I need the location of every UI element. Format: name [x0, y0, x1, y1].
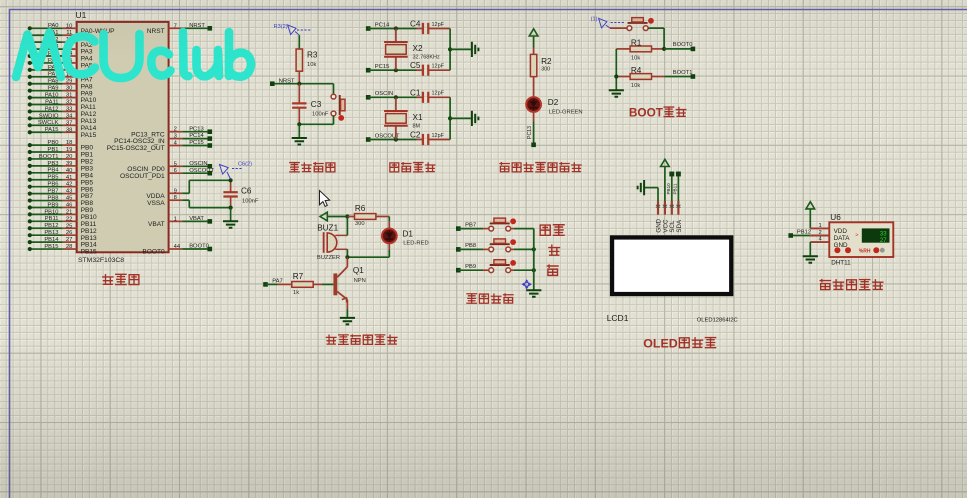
- U1 pin PA14 (37) with net SWCLK: [28, 120, 97, 132]
- BOOT push button: [610, 18, 664, 49]
- mouse cursor: [320, 191, 330, 207]
- ground (rotated) for X1: [472, 111, 479, 126]
- resistor R4 10k: [614, 49, 695, 90]
- OLED SCL terminal wire: [666, 172, 674, 201]
- wire right rail to ground: [448, 29, 472, 71]
- U1 pin BOOT0 (44) net BOOT0: [142, 244, 212, 256]
- 设置 label: [540, 225, 565, 236]
- LCD1 OLED display body: [610, 235, 734, 296]
- capacitor C4 12pF: [410, 20, 450, 35]
- U1 pin PB8 (45) with net PB8: [28, 195, 94, 207]
- 复位电路 label: [289, 162, 335, 172]
- U1 pin PA10 (31) with net PA10: [28, 93, 97, 105]
- U1 pin PA2 (12) with net PA2: [28, 37, 93, 49]
- U1 pin NRST (7) net NRST: [147, 23, 212, 35]
- capacitor C6 100nF: [223, 178, 258, 210]
- U1 pin PB7 (43) with net PB7: [28, 189, 94, 201]
- blue virtual-net arrow R3(2): [274, 24, 311, 35]
- U1 pin PA0-WKUP (10) with net PA0: [28, 23, 115, 35]
- buzzer BUZ1: [317, 217, 348, 261]
- blue virtual-net arrow (1): [591, 17, 624, 29]
- U1 pin PA1 (11) with net PA1: [28, 30, 93, 42]
- key button PB9: [456, 260, 536, 273]
- U1 pin VSSA (8): [147, 195, 230, 207]
- U1 pin PC15-OSC32_OUT (4) net PC15: [107, 140, 212, 152]
- wire right rail to ground: [448, 97, 472, 139]
- U1 pin OSCOUT_PD1 (6) net OSCOUT: [120, 168, 214, 180]
- reset push button: [299, 84, 345, 125]
- U1 pin PB5 (41) with net PB5: [28, 175, 94, 187]
- OLED GND wire to rotated ground: [638, 180, 658, 201]
- resistor R6 300: [347, 204, 389, 227]
- 独立按键 label: [466, 293, 513, 303]
- OLED显示屏 label: [643, 337, 716, 351]
- U1 pin OSCIN_PD0 (5) net OSCIN: [127, 161, 212, 173]
- U6 pin DATA (2) with PB12 terminal: [788, 230, 829, 238]
- ground of DHT11: [803, 256, 818, 263]
- U1 pin PB10 (21) with net PB10: [28, 209, 97, 221]
- U1 pin PB3 (39) with net PB3: [28, 161, 94, 173]
- power arrow (left) for alarm: [320, 212, 349, 221]
- wire to PC13 terminal: [527, 112, 536, 147]
- capacitor C2 12pF: [410, 131, 450, 146]
- blue virtual-net arrow C6(2): [220, 162, 253, 179]
- U1 pin PA3 (13) with net PA3: [28, 44, 93, 56]
- 声光报警电路 label: [326, 334, 398, 344]
- ground (rotated) for X2: [472, 42, 479, 57]
- MCUclub watermark: [16, 32, 251, 78]
- capacitor C5 12pF: [410, 61, 450, 76]
- U1 pin PB12 (25) with net PB12: [28, 223, 97, 235]
- 主芯片 label: [102, 274, 139, 285]
- U6 pin VDD (1): [810, 223, 829, 229]
- LED D1 LED-RED: [347, 217, 428, 258]
- blue origin marker: [522, 279, 532, 289]
- resistor R2 300: [530, 48, 552, 98]
- U1 pin PB0 (18) with net PB0: [28, 140, 94, 152]
- U1 pin PA6 (16) with net PA6: [28, 65, 93, 77]
- U1 pin PA15 (38) with net PA15: [28, 127, 97, 139]
- 晶振电路 label: [390, 162, 436, 172]
- U1 pin PB1 (19) with net PB1: [28, 147, 94, 159]
- LCD1 pin stubs GND VCC SCL SDA: [655, 201, 682, 233]
- 加 label: [548, 244, 560, 255]
- op-amp U1 STM32F103C8 main chip body: [77, 22, 169, 252]
- capacitor C3 100nF: [292, 84, 329, 125]
- U1 pin PA12 (33) with net PA12: [28, 106, 97, 118]
- power arrow for DHT11 VDD: [806, 202, 815, 229]
- OLED SDA terminal wire: [673, 172, 681, 201]
- U1 pin PB4 (40) with net PB4: [28, 168, 94, 180]
- ground of Q1 emitter: [340, 318, 355, 325]
- U1 pin PA9 (30) with net PA9: [28, 86, 93, 98]
- crystal X2 32.768KHz: [384, 29, 440, 71]
- U1 pin PB9 (46) with net PB9: [28, 202, 94, 214]
- node PC14 terminal/wire: [366, 22, 423, 31]
- U1 pin PA11 (32) with net PA11: [28, 99, 96, 111]
- key button PB8: [456, 239, 536, 252]
- BOOT电路 label: [629, 105, 687, 119]
- U6 DHT11 module body: [829, 213, 893, 267]
- node OSCIN terminal/wire: [366, 91, 423, 100]
- ground of keys: [526, 290, 541, 297]
- capacitor C1 12pF: [410, 88, 450, 103]
- U1 pin PA8 (29) with net PA8: [28, 79, 93, 91]
- ground below C6: [223, 208, 238, 228]
- U1 pin PC13_RTC (2) net PC13: [131, 126, 212, 138]
- keys common bus wire: [533, 229, 535, 291]
- ground of reset circuit: [292, 122, 307, 144]
- power arrow for indicator: [529, 29, 538, 48]
- crystal X1 8M: [384, 97, 423, 139]
- transistor Q1 NPN: [333, 255, 365, 318]
- node NRST wire: [270, 78, 334, 86]
- U6 pin GND (4): [810, 237, 829, 257]
- U1 pin VBAT (1) net VBAT: [148, 216, 212, 228]
- U1 pin PB14 (27) with net PB14: [28, 237, 97, 249]
- U1 pin PB6 (42) with net PB6: [28, 182, 94, 194]
- resistor R3 10k: [296, 35, 318, 83]
- resistor R7 1k with PA7 terminal: [263, 272, 333, 296]
- node PC15 terminal/wire: [366, 64, 423, 73]
- ground of BOOT divider: [609, 90, 624, 97]
- 减 label: [547, 264, 559, 275]
- U1 pin PA4 (14) with net PA4: [28, 51, 93, 63]
- 程序运行指示灯 label: [499, 162, 581, 172]
- U1 pin PB2 (20) with net BOOT1: [28, 154, 94, 166]
- key button PB7: [456, 218, 534, 231]
- U1 pin PA5 (15) with net PA5: [28, 58, 93, 70]
- U1 pin PA7 (17) with net PA7: [28, 72, 93, 84]
- power arrow for OLED VCC: [661, 159, 670, 201]
- U1 pin PC14-OSC32_IN (3) net PC14: [114, 133, 212, 145]
- LED D2 LED-GREEN: [526, 97, 582, 115]
- 温湿度模块 label: [820, 279, 884, 290]
- U1 pin PB13 (26) with net PB13: [28, 230, 97, 242]
- U1 pin VDDA (9): [146, 180, 230, 200]
- U1 pin PB15 (28) with net PB15: [28, 244, 97, 256]
- U1 pin PB11 (22) with net PB11: [28, 216, 97, 228]
- U1 pin PA13 (34) with net SWDIO: [28, 113, 97, 125]
- node OSCOUT terminal/wire: [366, 133, 423, 142]
- resistor R1 10k: [616, 39, 695, 62]
